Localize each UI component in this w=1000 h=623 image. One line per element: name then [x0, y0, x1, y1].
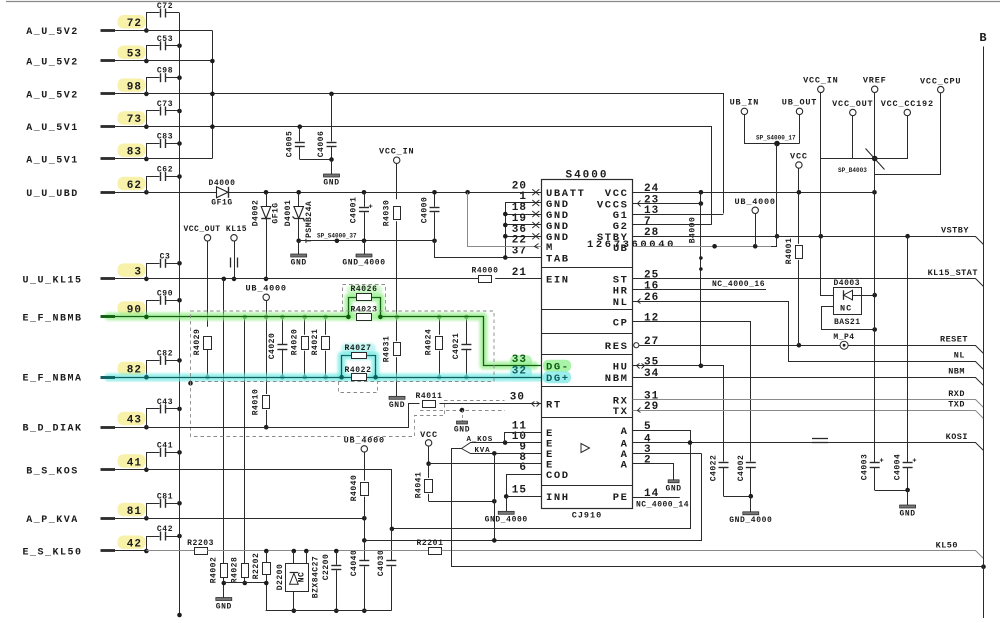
capacitor C98 [147, 78, 160, 94]
svg-text:A_KOS: A_KOS [467, 436, 494, 444]
svg-text:TAB: TAB [546, 253, 570, 265]
junction dot KL50/D2200b [304, 549, 309, 554]
svg-text:VCC_CPU: VCC_CPU [920, 77, 961, 87]
junction dot C81 on bus [177, 501, 182, 506]
svg-text:32: 32 [512, 365, 527, 377]
junction dot pin4/pin5 [688, 440, 693, 445]
svg-text:37: 37 [512, 246, 527, 258]
pin stub 81 [101, 517, 116, 520]
capacitor C4030 [391, 529, 393, 560]
svg-text:VCC_IN: VCC_IN [379, 147, 414, 157]
junction dot NBMA R4022 right [373, 375, 378, 380]
junction dot pin 73 [144, 124, 149, 129]
svg-text:GND: GND [454, 426, 470, 435]
svg-text:C4003: C4003 [861, 454, 870, 481]
svg-text:C82: C82 [157, 349, 173, 358]
IC section divider [541, 485, 633, 487]
svg-text:VCC_OUT: VCC_OUT [183, 225, 220, 234]
svg-text:KVA: KVA [475, 447, 491, 455]
svg-text:INH: INH [546, 492, 570, 504]
svg-text:GND: GND [291, 259, 307, 268]
svg-text:CJ910: CJ910 [572, 511, 603, 521]
svg-text:+: + [912, 458, 916, 466]
net flag A_KOS / KVA [462, 443, 506, 449]
wire net U_U_UBD row62 [146, 192, 541, 194]
junction dot C90 on bus [177, 298, 182, 303]
svg-text:R4040: R4040 [350, 475, 359, 502]
svg-text:UB_IN: UB_IN [730, 98, 760, 108]
svg-text:NL: NL [954, 350, 965, 360]
junction dot KVA on pin9 [492, 451, 497, 456]
svg-text:VCC_IN: VCC_IN [803, 76, 838, 86]
svg-text:SP_B4003: SP_B4003 [838, 167, 867, 174]
SP_B4003 slash mark [866, 149, 885, 170]
svg-text:DG+: DG+ [546, 373, 570, 385]
svg-text:73: 73 [127, 114, 142, 126]
junction dot gnd19 [503, 223, 508, 228]
svg-text:+: + [369, 204, 373, 212]
svg-text:7: 7 [644, 216, 652, 228]
junction dot pin 72 [144, 28, 149, 33]
pin stub 73 [101, 125, 116, 128]
svg-text:2: 2 [644, 455, 652, 467]
junction dot pin 43 [144, 425, 149, 430]
junction dot NBMB pin [144, 315, 149, 320]
wire pin 11 E [505, 433, 542, 443]
junction dot STBY/SPvert [775, 234, 780, 239]
junction dot pin 81 [144, 516, 149, 521]
wire second vertical x212 joining rows 72-83 [212, 31, 214, 159]
pin29 arrow [638, 408, 641, 413]
svg-text:NC: NC [840, 304, 852, 314]
ground GND_4000 near C4001 [364, 241, 366, 254]
wire KL15 to row3 [234, 241, 236, 279]
svg-text:TPSMB24A: TPSMB24A [305, 201, 314, 243]
resistor R4029 [204, 337, 212, 350]
dashed box around R4026/R4023 [343, 285, 386, 311]
svg-text:R4023: R4023 [350, 306, 377, 315]
pin 24 VCC wire [633, 192, 875, 194]
wire D4003 cathode to vert [861, 295, 875, 297]
svg-text:C41: C41 [157, 441, 173, 450]
svg-text:A_P_KVA: A_P_KVA [26, 515, 79, 526]
wire bottom rail [266, 610, 392, 612]
wire IC gnd bundle [506, 203, 542, 258]
svg-text:R4000: R4000 [471, 267, 498, 276]
pin 7 G2 wire [633, 224, 712, 226]
ground GND_4000 for INH [506, 496, 508, 511]
pin 25 ST wire / KL15_STAT [633, 279, 984, 287]
capacitor C4002 [746, 462, 756, 464]
svg-text:VCC_OUT: VCC_OUT [832, 99, 873, 109]
svg-text:UB_4000: UB_4000 [344, 436, 385, 446]
ground for shield [462, 410, 464, 421]
svg-text:DG-: DG- [546, 362, 570, 374]
dashed shield gnd stub [420, 410, 505, 412]
resistor R2201 [429, 548, 442, 555]
junction dot R4030/NBMB [395, 315, 400, 320]
wire net B_S_KOS row [147, 443, 691, 529]
svg-text:D4002: D4002 [252, 200, 261, 227]
svg-text:GND_4000: GND_4000 [342, 259, 385, 268]
wire row53 to x212 [146, 60, 212, 62]
junction dot D4001 bottom / gnd rail [296, 239, 301, 244]
svg-text:15: 15 [512, 485, 527, 497]
svg-text:E_S_KL50: E_S_KL50 [22, 548, 82, 559]
svg-text:NC: NC [298, 572, 307, 583]
wire net E_F_NBMA cyan [115, 377, 542, 379]
junction dot VCC/pin8 [426, 461, 431, 466]
svg-text:GF1G: GF1G [272, 202, 281, 223]
svg-text:C4005: C4005 [286, 131, 295, 158]
svg-text:BZX84C27: BZX84C27 [312, 556, 321, 598]
junction dot C3 on bus [177, 261, 182, 266]
wire rail R4002-R2202 bottoms [224, 582, 266, 584]
svg-text:HR: HR [613, 285, 629, 297]
dashed shield outline lower [191, 382, 505, 437]
pin stub 62 [101, 191, 116, 194]
svg-text:RES: RES [605, 341, 629, 353]
wire VCC_IN vert to D4003 [821, 237, 834, 296]
resistor R4040 [364, 452, 366, 481]
svg-text:A_U_5V2: A_U_5V2 [26, 90, 79, 101]
svg-text:R4002: R4002 [210, 557, 219, 584]
wire pin 10 line [505, 442, 541, 444]
wire UB_OUT down [799, 115, 801, 144]
svg-text:42: 42 [127, 539, 142, 551]
pin35 double arrow [637, 364, 640, 369]
junction dot C4001/GND_4000 [362, 239, 367, 244]
junction dot C4040/rail [362, 609, 367, 614]
pin 14 PE wire NC [633, 497, 680, 499]
pin 26 NL wire [633, 302, 984, 370]
svg-text:R2201: R2201 [416, 539, 443, 548]
svg-text:VCC_CC192: VCC_CC192 [881, 99, 934, 109]
pin 5 A wire [633, 431, 691, 443]
junction dot R4002 bottom rail [222, 581, 227, 586]
svg-text:KL15_STAT: KL15_STAT [928, 268, 978, 278]
svg-text:GND: GND [389, 401, 405, 410]
svg-text:C4040: C4040 [350, 550, 359, 577]
capacitor C42 [147, 537, 160, 551]
zener diode D4001 TPSMB24A [298, 192, 300, 206]
svg-text:D4001: D4001 [284, 200, 293, 227]
junction dot row98/x212 [210, 92, 215, 97]
capacitor C4001 [364, 192, 366, 206]
highlight glow NBMB green path [109, 298, 535, 366]
ground for C4003/C4004 [907, 490, 909, 505]
svg-text:62: 62 [127, 180, 142, 192]
junction dot row62/D4001 [296, 190, 301, 195]
svg-text:HU: HU [613, 362, 629, 374]
junction dot KL50/R2202 [264, 549, 269, 554]
svg-text:KOSI: KOSI [946, 432, 968, 442]
pin stub 98 [101, 92, 116, 95]
ground GND_4000 for C4002 [750, 496, 752, 512]
ground GND for D4001 [298, 241, 300, 254]
junction dot C98 on bus [177, 75, 182, 80]
junction dot NBMB/R4028drop [243, 315, 248, 320]
svg-text:UB: UB [613, 243, 628, 255]
wire net A_P_KVA row [146, 518, 364, 520]
wire VCC_IN to SP_B4003 [821, 158, 875, 160]
svg-text:C4021: C4021 [452, 333, 461, 360]
wire NBMB to R4028 drop [244, 317, 246, 565]
wire VCC_OUT down to R4029 [207, 241, 209, 327]
wire HU to C4022 [701, 366, 724, 462]
junction dot KVAdrop/y540 [492, 538, 497, 543]
pin 31 RX wire / RXD [633, 400, 984, 408]
pin 4 A wire / KOSI [633, 443, 984, 451]
junction dot on dashed box corner [188, 381, 193, 386]
svg-text:A: A [621, 460, 629, 472]
pin26 arrow [638, 299, 641, 304]
junction dot C53 on bus [177, 44, 182, 49]
junction dot C73 on bus [177, 109, 182, 114]
junction dot row73/C4005 [298, 124, 303, 129]
solder point SP_B4003 [872, 156, 878, 162]
wire KVA line y540 to pin3 riser [365, 454, 702, 541]
pin stub 82 [101, 376, 116, 379]
junction dot C43 on bus [177, 407, 182, 412]
solder point SP_S4000_37 [335, 239, 340, 244]
svg-text:3: 3 [134, 266, 142, 278]
junction dot C2200/rail [334, 609, 339, 614]
wire VCC to pin24 line and R4001 [798, 168, 800, 244]
IC section divider [541, 417, 633, 419]
svg-text:A_U_5V1: A_U_5V1 [26, 156, 79, 167]
capacitor C4006 [331, 94, 333, 142]
svg-text:C4001: C4001 [350, 197, 359, 224]
resistor R4026 [357, 294, 372, 301]
svg-text:CP: CP [613, 317, 629, 329]
capacitor C62 [147, 177, 160, 193]
junction dot shield gnd [460, 408, 465, 413]
pin no-connect cross [532, 189, 539, 195]
junction dot C41 on bus [177, 450, 182, 455]
wire net A_U_5V2 pin98 row [147, 94, 724, 214]
pin stub 41 [101, 468, 116, 471]
junction dot pin 98 [144, 92, 149, 97]
pin no-connect cross [532, 222, 539, 228]
capacitor C82 [147, 361, 160, 378]
resistor R4030 [394, 207, 401, 220]
svg-text:VCC: VCC [605, 188, 629, 200]
svg-text:GND_4000: GND_4000 [485, 516, 528, 525]
svg-text:A_U_5V2: A_U_5V2 [26, 27, 79, 38]
pin no-connect cross [532, 200, 539, 206]
svg-text:R2203: R2203 [187, 539, 214, 548]
wire KL50 row continue [207, 550, 428, 552]
resistor R4022 [352, 374, 367, 381]
svg-text:83: 83 [127, 147, 142, 159]
junction dot row3/KL15-drop [222, 277, 227, 282]
junction dot pin 41 [144, 468, 149, 473]
diode D4002 [266, 192, 268, 206]
resistor R4023 [357, 314, 372, 321]
junction dot UB/UB_4000 [753, 244, 758, 249]
wire pin 6 COD [507, 475, 542, 497]
pin no-connect cross [532, 211, 539, 217]
pin22 arrow [535, 244, 539, 249]
junction dot KL50/C2200 [334, 549, 339, 554]
svg-text:C42: C42 [157, 525, 173, 534]
svg-text:D4000: D4000 [208, 179, 235, 188]
svg-text:E_F_NBMB: E_F_NBMB [22, 313, 82, 324]
svg-text:C4002: C4002 [737, 455, 746, 482]
wire VREF vert down to C4003 [874, 192, 876, 462]
capacitor C2200 [336, 551, 338, 565]
wire D4003 NC wrap [822, 307, 875, 330]
pin stub 3 [101, 277, 116, 280]
pin UB wire [633, 246, 770, 248]
pin 13 G1 wire [633, 214, 723, 216]
pin stub 43 [101, 426, 116, 429]
junction dot D4003/vert [872, 293, 877, 298]
resistor R2202 [266, 551, 268, 563]
wire gnd rail y241 [299, 240, 435, 242]
capacitor C81 [147, 504, 160, 519]
wire row72 to x212 [146, 30, 212, 32]
bus separator mark on KOSI line [812, 438, 828, 440]
svg-text:R4020: R4020 [290, 329, 299, 356]
pin stub 90 [101, 315, 116, 318]
junction dot gnd36 [503, 234, 508, 239]
junction dot row73/x212 [210, 124, 215, 129]
svg-text:98: 98 [127, 81, 142, 93]
svg-text:R4024: R4024 [425, 329, 434, 356]
resistor R4027 [352, 353, 367, 359]
svg-text:TX: TX [613, 406, 629, 418]
wire C4003 bottom [875, 490, 908, 492]
resistor R4028 [242, 564, 249, 578]
wire VCC_IN down through R4030 [396, 163, 398, 199]
resistor R4011 [409, 404, 420, 428]
svg-text:M_P4: M_P4 [833, 333, 854, 342]
svg-text:A_U_5V2: A_U_5V2 [26, 58, 79, 69]
svg-text:B: B [979, 31, 986, 45]
junction dot R4041/KVAdrop [492, 499, 497, 504]
junction dot NBMA pin [144, 375, 149, 380]
resistor R2203 [195, 548, 208, 555]
capacitor C73 [147, 111, 160, 127]
svg-text:D4003: D4003 [834, 279, 861, 288]
junction dot UB/SP17vert [712, 244, 717, 249]
svg-text:R4031: R4031 [383, 336, 392, 363]
svg-text:C4030: C4030 [377, 550, 386, 577]
pin stub 83 [101, 157, 116, 160]
svg-text:C90: C90 [157, 289, 173, 298]
junction dot D2200/rail [292, 609, 297, 614]
junction dot C4005/C4006 bottoms [329, 157, 334, 162]
svg-text:GND: GND [323, 179, 339, 188]
solder point SP_S4000_17 [774, 141, 780, 147]
diode D4000 [217, 187, 229, 198]
resistor R4031 [396, 317, 398, 341]
wire pin37 TAB [505, 257, 541, 259]
capacitor C4020 [282, 317, 284, 344]
pin 23 VCCS wire [633, 203, 701, 205]
junction dot UB_4000/NBMB [264, 315, 269, 320]
svg-text:29: 29 [644, 401, 659, 413]
capacitor C4000 [434, 192, 436, 206]
svg-text:U_U_KL15: U_U_KL15 [22, 275, 82, 286]
svg-text:NBM: NBM [605, 373, 629, 385]
pin 12 CP wire [633, 322, 751, 462]
svg-text:R4030: R4030 [383, 200, 392, 227]
pin no-connect cross [532, 233, 539, 239]
connector marker bars on KL15 wire [230, 258, 232, 268]
svg-text:GF1G: GF1G [211, 199, 233, 208]
svg-text:B4000: B4000 [689, 217, 698, 244]
svg-text:24: 24 [644, 183, 659, 195]
junction dot C42 on bus [177, 534, 182, 539]
svg-text:C43: C43 [157, 398, 173, 407]
wire row83 to x212 [146, 158, 212, 160]
jumper B4000 [700, 192, 702, 365]
svg-text:C62: C62 [157, 166, 173, 175]
junction dot C4004/gnd [905, 488, 910, 493]
capacitor C4004 electrolytic [907, 236, 909, 462]
wire net U_U_KL15 row3 [146, 278, 479, 280]
junction dot row62/D4002 [264, 190, 269, 195]
ground below C4006 [331, 160, 333, 175]
svg-text:B_D_DIAK: B_D_DIAK [22, 424, 82, 435]
svg-text:R4041: R4041 [415, 472, 424, 499]
svg-text:RESET: RESET [940, 335, 968, 345]
wire VCC_CC192 to SP [875, 116, 908, 159]
svg-text:22: 22 [512, 234, 527, 246]
pin30 RT double arrow [532, 402, 535, 407]
svg-text:UB_4000: UB_4000 [735, 197, 776, 207]
svg-text:GND: GND [546, 221, 570, 233]
svg-text:C4022: C4022 [710, 455, 719, 482]
dashed shield box around NBMB/NBMA network [191, 311, 495, 382]
IC section divider [541, 309, 633, 311]
svg-text:R2202: R2202 [252, 553, 261, 580]
svg-text:NL: NL [613, 297, 629, 309]
svg-text:28: 28 [644, 227, 659, 239]
svg-text:NC_4000_16: NC_4000_16 [712, 280, 765, 289]
wire R4041 bottom to KVA drop [429, 501, 495, 503]
IC section divider [541, 354, 633, 356]
IC section divider [541, 386, 633, 388]
svg-text:VCC: VCC [420, 430, 438, 440]
resistor R4041 [428, 464, 430, 478]
junction dot RES/R4001 [797, 343, 802, 348]
junction dot NBMB R4023 left [346, 315, 351, 320]
junction dot KVA/R4040 [362, 516, 367, 521]
svg-text:GND: GND [665, 485, 681, 494]
svg-text:A: A [621, 426, 629, 438]
svg-text:COD: COD [546, 470, 570, 482]
wire VCC_CPU to SP branch [875, 93, 941, 175]
capacitor C53 [147, 46, 160, 61]
junction dot row53/x212 [210, 59, 215, 64]
svg-text:33: 33 [512, 354, 527, 366]
svg-text:NBM: NBM [948, 367, 965, 377]
svg-text:+: + [880, 458, 884, 466]
svg-text:U_U_UBD: U_U_UBD [26, 189, 79, 200]
junction dot row98/C4006 [329, 92, 334, 97]
svg-text:D2200: D2200 [276, 564, 285, 591]
junction dot gnd rail / TAB branch [432, 239, 437, 244]
wire net A_U_5V1 pin73 row [147, 127, 712, 225]
IC section divider [541, 333, 633, 335]
wire VSTBY line [777, 237, 984, 245]
bus B vertical line [983, 47, 985, 619]
resistor R4000 [479, 276, 492, 283]
